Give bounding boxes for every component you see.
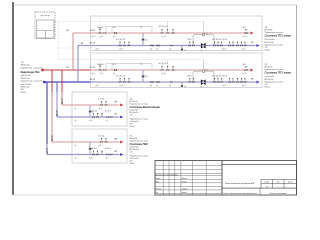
svg-text:ΔP=10 кПа: ΔP=10 кПа (265, 41, 274, 44)
title block grid (155, 161, 297, 195)
svg-text:Ду: Ду (169, 85, 171, 87)
circuit3 return valve4 (110, 116, 112, 118)
svg-text:Ду15: Ду15 (120, 85, 124, 87)
svg-text:25x3,5: 25x3,5 (130, 163, 135, 165)
circuit3 thermometer stub (101, 114, 103, 117)
control wire dashed branch mid (59, 47, 93, 49)
circuit1 return cluster2 valves (213, 45, 215, 47)
circuit1 supply valve with actuator (99, 32, 102, 34)
circuit2 return cluster1 valves (119, 81, 121, 83)
svg-text:25x3,5: 25x3,5 (265, 50, 270, 52)
wire circuit3 return pipe (57, 116, 120, 118)
svg-text:Ду15: Ду15 (120, 49, 124, 51)
wire riser blue to circuit3 lower (56, 92, 58, 117)
circuit1 bypass balancing valve (202, 33, 205, 36)
svg-text:Ду15: Ду15 (222, 49, 226, 51)
circuit2 bypass control stem (203, 60, 205, 70)
sheet frame left line (12, 2, 14, 195)
svg-text:ΔP: ΔP (66, 66, 69, 69)
circuit2 return mid valve2 (157, 81, 160, 83)
svg-text:Лист: Лист (277, 182, 280, 184)
wire circuit3 supply pipe (62, 104, 120, 106)
circuit2 pump bypass loop (193, 71, 214, 82)
circuit4 supply valve with actuator (100, 141, 102, 143)
svg-text:Ф-1 Ф-1 Ф-1: Ф-1 Ф-1 Ф-1 (158, 62, 167, 65)
circuit4 return valve2 (96, 154, 98, 156)
svg-text:ΔP: ΔP (114, 101, 117, 104)
svg-text:Ф-1: Ф-1 (113, 26, 116, 29)
svg-text:Подключение к стояку Т11: Подключение к стояку Т11 (21, 67, 44, 69)
circuit2 actuator control dashed drop (99, 60, 101, 65)
circuit1 cabinet enclosure (91, 16, 263, 51)
sheet frame bottom line (13, 194, 155, 196)
circuit2 blue return arrow (256, 81, 259, 84)
svg-text:ΔP: ΔP (251, 78, 254, 81)
svg-text:Ду: Ду (156, 85, 158, 87)
circuit1 bypass control stem (203, 22, 205, 34)
circuit2 supply end valve (245, 69, 248, 71)
svg-text:ΔP=10 кПа: ΔP=10 кПа (265, 78, 274, 81)
svg-text:Ф-1: Ф-1 (145, 75, 148, 78)
wire riser blue to circuit4 lower (46, 144, 48, 155)
svg-text:Ду15: Ду15 (96, 85, 100, 87)
circuit1 supply valve3 (114, 32, 117, 34)
wire supply trunk red (42, 69, 91, 71)
svg-text:ΔP=5: ΔP=5 (51, 135, 54, 141)
svg-text:Ду15: Ду15 (92, 73, 96, 75)
room unit divider vertical (45, 31, 47, 39)
svg-text:Ф-1 Ф-1: Ф-1 Ф-1 (105, 147, 111, 150)
svg-text:У1: У1 (206, 33, 208, 35)
circuit3 supply arrow (120, 104, 123, 107)
svg-text:Ф-1: Ф-1 (243, 63, 246, 66)
svg-text:Ф-1 Ф-1: Ф-1 Ф-1 (98, 98, 104, 101)
circuit3 return arrow (120, 116, 123, 119)
circuit1 pump bypass loop (193, 35, 214, 46)
svg-text:ΔP=12 кПа: ΔP=12 кПа (21, 86, 31, 89)
circuit2 return bypass-left valves (189, 81, 191, 83)
circuit2 return cluster2 valves (213, 81, 215, 83)
svg-text:ΔP: ΔP (66, 29, 69, 32)
circuit1 valve group frame divider (111, 27, 113, 34)
circuit2 return mid valve1 (151, 81, 154, 83)
circuit1 return drain stub (181, 46, 183, 50)
svg-text:Ду: Ду (75, 120, 77, 122)
svg-text:Ф-1 Ф-1: Ф-1 Ф-1 (97, 26, 103, 29)
svg-text:Листов: Листов (288, 182, 293, 184)
svg-text:Ду15: Ду15 (89, 120, 93, 122)
circuit4 balancing connector (89, 142, 91, 155)
circuit1 return mid valve3 (171, 45, 173, 47)
svg-text:Ду15: Ду15 (89, 158, 93, 160)
svg-text:Ф-1 Ф-1: Ф-1 Ф-1 (91, 147, 97, 150)
circuit2 supply cluster control stem (167, 60, 169, 66)
svg-text:Подключение к стояку Т21: Подключение к стояку Т21 (21, 81, 44, 83)
svg-text:ΔP: ΔP (114, 138, 117, 141)
svg-text:Ду Ду: Ду Ду (162, 36, 167, 38)
svg-text:Ф-1: Ф-1 (145, 38, 148, 41)
svg-text:Квартира Пхх: Квартира Пхх (21, 70, 41, 74)
svg-text:Ду: Ду (184, 86, 186, 88)
svg-text:Блок отводной приборов АПТ: Блок отводной приборов АПТ (225, 182, 255, 185)
circuit2 balancing connector (142, 70, 144, 82)
wire riser red to circuit3 upper (61, 70, 63, 92)
svg-text:Ду: Ду (75, 158, 77, 160)
svg-text:ΔP: ΔP (81, 42, 84, 45)
svg-text:T21: T21 (130, 115, 133, 117)
svg-text:Система Вентиляции: Система Вентиляции (130, 105, 161, 109)
circuit1 supply cluster control stem (167, 22, 169, 29)
svg-text:Ду15: Ду15 (92, 36, 96, 38)
sheet frame right line (296, 5, 298, 195)
circuit4 return valve with actuator (92, 154, 94, 156)
svg-text:25x3,5: 25x3,5 (21, 92, 27, 94)
svg-text:ΔP=5: ΔP=5 (56, 110, 59, 116)
svg-text:Ду Ду: Ду Ду (162, 73, 167, 75)
wire circuit2 red supply pipe (91, 69, 250, 71)
svg-text:Ду: Ду (113, 36, 115, 38)
svg-text:ΔP ΔP: ΔP ΔP (90, 42, 96, 45)
svg-text:Ф-1 Ф-1 Ф-1: Ф-1 Ф-1 Ф-1 (158, 25, 167, 28)
svg-text:Ф-1 Ф-1: Ф-1 Ф-1 (105, 110, 111, 113)
wire circuit2 blue return pipe (91, 81, 256, 83)
wire riser blue to circuit4 upper (46, 82, 48, 144)
svg-text:Ф-1 Ф-1: Ф-1 Ф-1 (98, 135, 104, 138)
svg-text:Н.контр: Н.контр (156, 188, 162, 190)
svg-text:Ду15: Ду15 (96, 49, 100, 51)
wire riser blue to circuit1 (77, 45, 79, 82)
wire circuit4 supply pipe (52, 141, 120, 143)
circuit2 bypass balancing valve (202, 70, 205, 73)
svg-text:Ду: Ду (106, 120, 108, 122)
svg-text:Ду: Ду (150, 85, 152, 87)
circuit2 cabinet enclosure (91, 53, 263, 88)
svg-text:25x3,5: 25x3,5 (265, 87, 270, 89)
svg-text:Козлов: Козлов (182, 192, 187, 194)
circuit1 red supply arrow (250, 32, 253, 35)
circuit3 return valve with actuator (92, 116, 94, 118)
circuit4 balancing connector valve (89, 148, 91, 151)
circuit4 return valve3 (106, 154, 108, 156)
circuit1 balancing connector (142, 33, 144, 46)
svg-text:Система ГВС: Система ГВС (130, 142, 149, 146)
control wire dashed bus circuit1 (55, 21, 204, 23)
svg-text:У1: У1 (140, 27, 142, 29)
circuit1 supply valve2 (103, 32, 106, 34)
svg-text:Ду: Ду (150, 49, 152, 51)
wire circuit1 blue return pipe (78, 45, 256, 47)
svg-text:Ду15: Ду15 (99, 108, 103, 110)
circuit3 balancing connector (89, 105, 91, 117)
svg-text:Ду15: Ду15 (243, 73, 247, 75)
circuit2 return drain stub (181, 82, 183, 86)
circuit4 return arrow (120, 153, 123, 156)
room unit dashed enclosure (35, 12, 55, 39)
circuit4 thermometer stub (101, 151, 103, 154)
circuit2 balancing connector valve (142, 75, 144, 78)
circuit1 return cluster1 valves (119, 45, 121, 47)
circuit3 return valve3 (106, 116, 108, 118)
svg-text:25x3,5: 25x3,5 (130, 126, 135, 128)
svg-text:Система ТП1 этаж: Система ТП1 этаж (265, 70, 292, 74)
svg-text:ΔP: ΔP (245, 66, 248, 69)
circuit2 valve group frame divider (111, 64, 113, 71)
svg-text:Ду15: Ду15 (242, 85, 246, 87)
circuit1 return mid valve2 (157, 44, 160, 46)
circuit3 cabinet enclosure (72, 92, 127, 126)
sheet frame top line (13, 4, 297, 6)
svg-text:Ду15: Ду15 (100, 36, 104, 38)
circuit2 supply valve with actuator (99, 69, 102, 71)
svg-text:ΔP: ΔP (114, 113, 117, 116)
node return inlet square (43, 81, 45, 83)
svg-text:Ф-1: Ф-1 (243, 26, 246, 29)
svg-text:Ду: Ду (75, 145, 77, 147)
node supply inlet square (41, 69, 43, 71)
svg-text:Ду: Ду (201, 86, 203, 88)
svg-text:ΔP: ΔP (245, 29, 248, 32)
svg-text:ΔP=5: ΔP=5 (61, 98, 64, 104)
room unit inner body (37, 20, 54, 38)
svg-text:Ду: Ду (201, 50, 203, 52)
wire riser blue to circuit3 upper (56, 82, 58, 92)
svg-text:Ду: Ду (156, 49, 158, 51)
circuit1 actuator control dashed drop (99, 16, 101, 28)
svg-text:ΔP: ΔP (251, 41, 254, 44)
svg-text:ΔP ΔP: ΔP ΔP (90, 78, 96, 81)
svg-text:Стадия: Стадия (264, 182, 269, 184)
circuit4 cabinet enclosure (72, 129, 127, 163)
circuit1 supply cluster valves (161, 32, 163, 34)
circuit1 valve group frame (106, 27, 152, 34)
svg-text:ΔP=8 кПа: ΔP=8 кПа (265, 66, 273, 69)
wire riser red to circuit4 upper (51, 70, 53, 92)
circuit2 valve group frame (106, 64, 152, 71)
svg-text:Система ТП1 этаж: Система ТП1 этаж (265, 33, 292, 37)
circuit1 pump (201, 43, 206, 48)
svg-text:Ф-1 Ф-1 Ф-1 У1 Ф-1: Ф-1 Ф-1 Ф-1 У1 Ф-1 (212, 38, 227, 41)
svg-text:Пров.: Пров. (156, 181, 161, 183)
svg-text:T21: T21 (130, 152, 133, 154)
svg-text:Ду: Ду (75, 108, 77, 110)
svg-text:ΔP: ΔP (114, 150, 117, 153)
svg-text:Ду15: Ду15 (242, 49, 246, 51)
wire riser red to circuit3 lower (61, 92, 63, 105)
circuit1 supply end valve (245, 32, 248, 34)
circuit1 balancing connector valve (142, 38, 144, 41)
svg-text:Петров: Петров (182, 181, 187, 183)
svg-text:У1: У1 (140, 64, 142, 66)
wire circuit4 return pipe (47, 154, 120, 156)
circuit3 supply valve2 (105, 104, 107, 106)
control wire dashed bus circuit2 (59, 59, 204, 61)
svg-text:Ду15: Ду15 (243, 36, 247, 38)
circuit2 supply valve2 (103, 69, 106, 71)
svg-text:Ду15: Ду15 (99, 145, 103, 147)
svg-text:Ду: Ду (113, 73, 115, 75)
svg-text:Ф-1: Ф-1 (113, 63, 116, 66)
svg-text:Изм Кол.уч Лист №док Подп Дата: Изм Кол.уч Лист №док Подп Дата (156, 174, 179, 176)
circuit4 supply arrow (120, 141, 123, 144)
wire circuit1 red supply pipe (73, 32, 250, 34)
circuit2 pump (201, 80, 206, 85)
circuit3 return valve2 (96, 116, 98, 118)
wire riser red to circuit1 (72, 33, 74, 70)
circuit4 supply valve2 (105, 141, 107, 143)
svg-text:Проектная организация: Проектная организация (270, 193, 287, 195)
svg-text:Ф-1 Ф-1: Ф-1 Ф-1 (97, 63, 103, 66)
circuit3 balancing connector valve (89, 110, 91, 113)
svg-text:ΔP ΔP: ΔP ΔP (90, 29, 96, 32)
svg-text:У1: У1 (206, 69, 208, 71)
svg-text:Схема гидравлическая принципиа: Схема гидравлическая принципиальная (223, 192, 257, 195)
svg-text:Разраб: Разраб (156, 178, 161, 180)
svg-text:Ф-1 Ф-1: Ф-1 Ф-1 (91, 110, 97, 113)
circuit2 supply valve3 (114, 69, 117, 71)
circuit4 return valve4 (110, 154, 112, 156)
svg-text:доп. контур: доп. контур (40, 15, 50, 17)
svg-text:Ду: Ду (184, 50, 186, 52)
svg-text:ΔP=15 кПа: ΔP=15 кПа (21, 64, 31, 67)
wire riser red to circuit4 lower (51, 92, 53, 142)
svg-text:Ду: Ду (169, 49, 171, 51)
svg-text:Ф-1 Ф-1 Ф-1 У1 Ф-1: Ф-1 Ф-1 Ф-1 У1 Ф-1 (212, 74, 227, 77)
circuit2 return mid valve3 (171, 81, 173, 83)
circuit2 supply cluster valves (161, 69, 163, 71)
svg-text:Иванов: Иванов (182, 178, 187, 180)
room unit divider horizontal (37, 30, 54, 32)
circuit1 return bypass-left valves (189, 45, 191, 47)
svg-text:ΔP=5: ΔP=5 (46, 147, 49, 153)
svg-text:Ф-1 Ф-1 Ф-1: Ф-1 Ф-1 Ф-1 (116, 75, 125, 78)
control wire dashed vertical drop (58, 22, 60, 60)
svg-text:Ду15: Ду15 (100, 73, 104, 75)
circuit1 blue return arrow (256, 44, 259, 47)
svg-text:ΔP ΔP: ΔP ΔP (90, 66, 96, 69)
svg-text:ΔP=12 кПа: ΔP=12 кПа (21, 77, 31, 80)
svg-text:У1 Ф1: У1 Ф1 (187, 75, 192, 78)
circuit3 supply valve with actuator (100, 104, 102, 106)
svg-text:Сидоров: Сидоров (182, 188, 188, 190)
circuit2 red supply arrow (250, 69, 253, 72)
svg-text:У1 Ф1: У1 Ф1 (187, 38, 192, 41)
svg-text:Ду: Ду (106, 158, 108, 160)
svg-text:Ду15: Ду15 (222, 85, 226, 87)
circuit1 return mid valve1 (151, 44, 154, 46)
svg-text:Ф-1 Ф-1 Ф-1: Ф-1 Ф-1 Ф-1 (116, 38, 125, 41)
wire return trunk blue (44, 81, 91, 83)
svg-text:ΔP=8 кПа: ΔP=8 кПа (265, 29, 273, 32)
